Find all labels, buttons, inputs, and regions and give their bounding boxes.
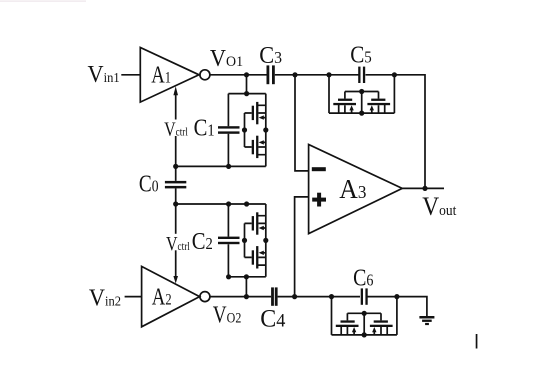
svg-text:C5: C5	[350, 41, 372, 68]
svg-text:C1: C1	[194, 114, 215, 141]
svg-text:VO1: VO1	[210, 45, 243, 72]
svg-text:A3: A3	[339, 175, 366, 205]
svg-text:A1: A1	[151, 61, 171, 88]
svg-text:C6: C6	[353, 264, 374, 291]
svg-text:VO2: VO2	[213, 301, 242, 328]
svg-text:C3: C3	[259, 42, 282, 69]
svg-text:Vout: Vout	[422, 193, 456, 221]
svg-text:C2: C2	[192, 228, 213, 255]
svg-text:C4: C4	[260, 305, 286, 333]
svg-text:Vin1: Vin1	[88, 61, 120, 88]
svg-text:C0: C0	[139, 171, 159, 198]
svg-text:Vin2: Vin2	[89, 285, 121, 312]
svg-text:A2: A2	[152, 283, 172, 310]
